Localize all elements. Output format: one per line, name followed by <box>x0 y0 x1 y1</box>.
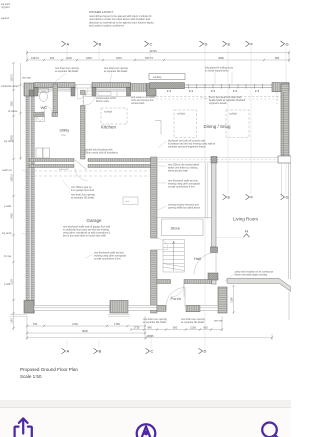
svg-text:Store: Store <box>171 226 181 231</box>
svg-text:750: 750 <box>33 322 38 326</box>
svg-text:3130: 3130 <box>10 279 13 285</box>
svg-text:13730: 13730 <box>149 49 157 53</box>
svg-text:Utility: Utility <box>60 128 70 133</box>
svg-text:new lintel over opening: new lintel over opening <box>181 318 206 321</box>
svg-text:2905: 2905 <box>10 135 13 141</box>
svg-text:2740: 2740 <box>72 322 78 326</box>
svg-text:Garage: Garage <box>87 218 103 223</box>
svg-text:as separate SE details: as separate SE details <box>71 197 95 200</box>
svg-text:double skin blockwork with: double skin blockwork with <box>85 149 113 152</box>
svg-text:A: A <box>67 349 70 354</box>
svg-text:F: F <box>251 41 254 46</box>
svg-text:new lintel over opening: new lintel over opening <box>55 67 80 70</box>
svg-text:1642.5: 1642.5 <box>31 56 39 60</box>
svg-text:1080: 1080 <box>10 101 13 107</box>
svg-text:D: D <box>204 349 207 354</box>
svg-text:g walls: g walls <box>4 206 12 208</box>
svg-text:new rwp: new rwp <box>22 77 31 80</box>
svg-text:1640: 1640 <box>66 56 72 60</box>
svg-text:rooflight: rooflight <box>104 110 113 113</box>
svg-text:ca wall connections & ties: ca wall connections & ties <box>94 258 121 261</box>
svg-text:G: G <box>286 41 289 46</box>
svg-text:below ground drain: below ground drain <box>168 170 189 173</box>
svg-text:2100: 2100 <box>190 326 196 330</box>
svg-text:8000: 8000 <box>82 329 88 333</box>
svg-text:C: C <box>151 349 154 354</box>
svg-text:new blockwork walls built off: new blockwork walls built off garage flo… <box>63 226 111 229</box>
svg-text:as separate SE details: as separate SE details <box>55 70 79 73</box>
svg-text:to clients requirements: to clients requirements <box>205 70 229 73</box>
svg-text:as separate SE details: as separate SE details <box>143 321 167 324</box>
svg-text:1750: 1750 <box>114 322 120 326</box>
svg-text:echanical extract: echanical extract <box>1 85 19 88</box>
svg-text:from garage floor level: from garage floor level <box>71 189 95 192</box>
svg-text:existing using cahrs stronghol: existing using cahrs stronghold <box>168 183 201 186</box>
svg-text:nk waste: nk waste <box>8 110 18 113</box>
svg-text:foundation and tied into exist: foundation and tied into existing cavity… <box>168 143 216 146</box>
svg-text:reach ext: reach ext <box>2 169 12 172</box>
svg-text:where new walls adjoin existin: where new walls adjoin existing <box>235 274 268 277</box>
svg-text:C: C <box>150 41 153 46</box>
svg-text:min 150mm step up: min 150mm step up <box>71 186 92 189</box>
svg-text:2700: 2700 <box>61 135 67 137</box>
svg-text:existing using cahrs stronghol: existing using cahrs stronghold <box>94 255 127 258</box>
svg-text:900: 900 <box>203 326 208 330</box>
svg-text:B: B <box>99 41 102 46</box>
svg-text:equired: equired <box>1 17 10 20</box>
svg-text:1515: 1515 <box>116 56 122 60</box>
svg-text:worktop: worktop <box>153 76 162 79</box>
svg-text:Hall: Hall <box>194 256 201 261</box>
svg-text:units and connect into: units and connect into <box>131 99 154 102</box>
svg-text:opening infilled as dated abov: opening infilled as dated above <box>168 207 201 210</box>
svg-text:WC: WC <box>41 105 48 110</box>
svg-text:new lintel over opening: new lintel over opening <box>143 318 168 321</box>
svg-text:ing cavity: ing cavity <box>2 232 13 235</box>
svg-text:900: 900 <box>173 326 178 330</box>
svg-text:990: 990 <box>275 56 280 60</box>
svg-text:engineers details: engineers details <box>209 102 227 105</box>
svg-text:F: F <box>251 195 254 200</box>
svg-text:ng point: ng point <box>1 6 10 9</box>
svg-text:half hr FD: half hr FD <box>59 168 69 171</box>
svg-text:to underside floor joists and: to underside floor joists and tied into … <box>63 229 110 232</box>
svg-text:A: A <box>67 41 70 46</box>
svg-text:line of new steel box beam wit: line of new steel box beam with <box>209 96 242 99</box>
svg-text:G: G <box>286 195 289 200</box>
svg-text:1962.5: 1962.5 <box>10 174 13 182</box>
svg-text:fully glazed bi-folding doors: fully glazed bi-folding doors <box>205 67 234 70</box>
svg-text:1557.5: 1557.5 <box>10 74 13 82</box>
svg-text:new lintel over opening: new lintel over opening <box>104 67 129 70</box>
svg-text:vertical stack: vertical stack <box>131 102 145 105</box>
svg-text:kitchen units: kitchen units <box>96 100 110 103</box>
svg-text:E: E <box>228 41 231 46</box>
svg-text:as separate SE details: as separate SE details <box>104 70 128 73</box>
svg-text:1190: 1190 <box>10 318 13 324</box>
svg-text:welded pads as separate struct: welded pads as separate structural <box>209 99 246 102</box>
svg-text:vertical stack within: vertical stack within <box>96 97 117 100</box>
svg-text:cavity and insulation to be co: cavity and insulation to be continuous <box>235 271 275 274</box>
svg-text:Scale 1:50: Scale 1:50 <box>20 374 42 379</box>
svg-text:50mm cavity built off foundati: 50mm cavity built off foundation <box>85 152 118 155</box>
svg-text:Dining / Snug: Dining / Snug <box>204 124 232 129</box>
svg-text:new 150mm dia vertical waste: new 150mm dia vertical waste <box>168 164 200 167</box>
svg-text:tb map: tb map <box>4 255 12 258</box>
svg-text:half hr FD: half hr FD <box>82 94 85 104</box>
svg-text:Living Room: Living Room <box>233 216 258 221</box>
svg-text:950: 950 <box>41 112 45 114</box>
svg-text:Kitchen: Kitchen <box>101 124 117 129</box>
svg-text:sink waste to run within: sink waste to run within <box>131 96 156 99</box>
svg-text:new lintel over opening: new lintel over opening <box>71 194 96 197</box>
svg-text:ties to dom and frame in house: ties to dom and frame in house stair sof… <box>63 235 106 238</box>
svg-text:H: H <box>245 229 248 234</box>
svg-text:1730: 1730 <box>134 326 140 330</box>
svg-text:w/m: w/m <box>125 201 129 203</box>
svg-text:as separate SE details: as separate SE details <box>181 321 205 324</box>
svg-text:Proposed Ground Floor Plan: Proposed Ground Floor Plan <box>20 367 78 372</box>
svg-text:1810: 1810 <box>86 56 92 60</box>
svg-text:16865: 16865 <box>146 334 154 338</box>
svg-text:and cooker location confirmed: and cooker location confirmed <box>89 24 124 28</box>
svg-text:KITCHEN LAYOUT: KITCHEN LAYOUT <box>89 10 113 14</box>
svg-text:2480: 2480 <box>10 213 13 219</box>
svg-text:blockwork pier built off concr: blockwork pier built off concrete pad <box>168 140 206 143</box>
svg-text:ing cavity: ing cavity <box>4 140 15 143</box>
svg-text:new blockwork walls laid into: new blockwork walls laid into <box>94 252 124 255</box>
svg-text:1190: 1190 <box>229 297 233 303</box>
svg-text:940: 940 <box>147 326 152 330</box>
svg-text:separate structural engineers: separate structural engineers details <box>168 146 206 149</box>
svg-text:ca wall connections & ties: ca wall connections & ties <box>168 186 195 189</box>
svg-text:rooflight: rooflight <box>177 112 186 115</box>
svg-text:within units linked to existin: within units linked to existing <box>168 167 198 170</box>
svg-text:9377.5: 9377.5 <box>145 56 153 60</box>
svg-text:Porch: Porch <box>171 296 181 301</box>
svg-text:4690: 4690 <box>218 56 224 60</box>
svg-text:E: E <box>228 195 231 200</box>
svg-text:existing window removed and: existing window removed and <box>168 204 199 207</box>
svg-text:g wall: g wall <box>4 284 10 286</box>
svg-text:using cahrs, stronghold ca wal: using cahrs, stronghold ca wall connecti… <box>63 232 111 235</box>
svg-text:B: B <box>99 349 102 354</box>
svg-text:D: D <box>205 41 208 46</box>
svg-text:rooflight: rooflight <box>229 112 238 115</box>
svg-text:new blockwork walls tied into: new blockwork walls tied into <box>168 180 199 183</box>
svg-text:910: 910 <box>50 56 55 60</box>
